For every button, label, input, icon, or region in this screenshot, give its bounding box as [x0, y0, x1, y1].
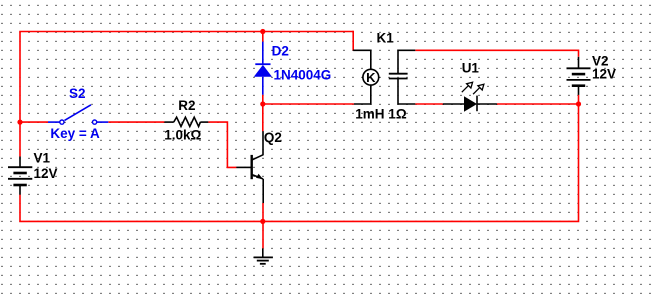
svg-text:D2: D2 — [272, 44, 289, 59]
wire switch feed — [20, 121, 48, 123]
wire R2 to Q2 base — [208, 122, 236, 167]
transistor Q2 emitter arrow — [256, 174, 263, 179]
node junction emitter/bottom rail — [260, 219, 265, 224]
LED U1 body — [464, 96, 477, 111]
svg-text:12V: 12V — [34, 166, 58, 181]
LED U1 light arrow 2 — [473, 84, 484, 94]
switch S2 — [48, 105, 108, 124]
diode D2 — [255, 42, 270, 95]
svg-text:V1: V1 — [34, 150, 51, 165]
svg-text:1.0kΩ: 1.0kΩ — [164, 128, 201, 143]
battery V1 — [8, 157, 32, 195]
svg-text:12V: 12V — [592, 66, 616, 81]
wire K1 coil top drop — [352, 31, 354, 51]
wire bottom rail — [20, 95, 579, 221]
wire Q2 emitter to ground rail — [262, 203, 264, 248]
node junction top of D2 — [260, 29, 265, 34]
transistor Q2 — [236, 131, 263, 203]
LED U1 — [443, 96, 497, 112]
wire D2 bottom to Q2 collector — [262, 95, 264, 132]
wire switch to R2 — [108, 121, 164, 123]
svg-text:K1: K1 — [377, 30, 395, 45]
svg-text:Q2: Q2 — [264, 130, 282, 145]
node junction collector/D2/coil — [260, 101, 265, 106]
wire D2 anode stub — [262, 32, 264, 42]
svg-text:1N4004G: 1N4004G — [274, 68, 332, 83]
ground — [254, 248, 273, 263]
svg-text:U1: U1 — [462, 61, 480, 76]
svg-text:R2: R2 — [178, 98, 195, 113]
wire K1 contact top to V2 — [415, 50, 578, 57]
battery V2 — [567, 57, 591, 95]
svg-text:Key = A: Key = A — [50, 126, 100, 141]
relay K1 coil — [353, 50, 378, 104]
diode D2 body — [254, 65, 272, 77]
LED U1 light arrow 1 — [462, 82, 473, 92]
wire LED cathode to V2 node — [497, 103, 579, 105]
svg-text:K: K — [366, 70, 376, 85]
wire K1 contact bottom to LED — [415, 103, 443, 105]
resistor R2 — [164, 117, 208, 126]
wire collector node to K1 coil — [263, 103, 354, 105]
svg-text:1mH 1Ω: 1mH 1Ω — [355, 107, 407, 122]
node junction V2 minus — [576, 101, 581, 106]
node junction left rail / switch — [17, 120, 22, 125]
svg-text:S2: S2 — [69, 86, 86, 101]
relay K1 contact — [389, 50, 416, 104]
wire top net (V1+ to top rail) — [20, 32, 353, 157]
